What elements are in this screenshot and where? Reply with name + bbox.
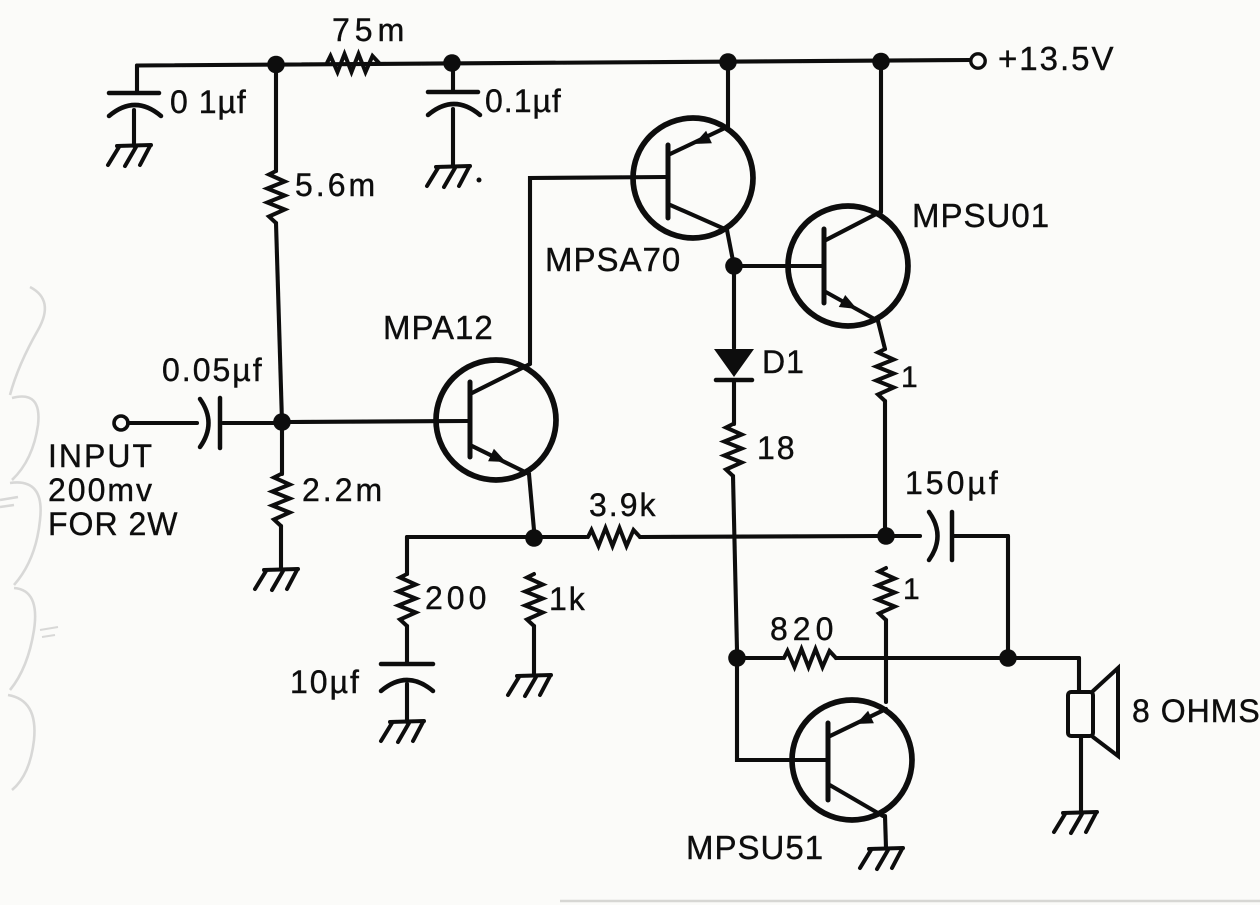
- svg-text:MPSU01: MPSU01: [912, 197, 1050, 234]
- svg-text:0.05µf: 0.05µf: [162, 352, 264, 388]
- svg-text:FOR 2W: FOR 2W: [48, 506, 178, 542]
- svg-text:10µf: 10µf: [290, 664, 361, 700]
- svg-text:0 1µf: 0 1µf: [170, 84, 247, 120]
- svg-text:8 OHMS: 8 OHMS: [1132, 693, 1260, 729]
- svg-text:+13.5V: +13.5V: [998, 40, 1116, 77]
- svg-text:MPSA70: MPSA70: [545, 241, 681, 278]
- svg-text:18: 18: [757, 430, 797, 466]
- svg-text:200: 200: [425, 580, 490, 616]
- svg-text:3.9k: 3.9k: [589, 487, 657, 523]
- svg-text:820: 820: [770, 611, 838, 647]
- svg-text:200mv: 200mv: [48, 472, 154, 508]
- svg-text:D1: D1: [762, 344, 805, 380]
- svg-text:1: 1: [903, 573, 920, 606]
- svg-text:MPSU51: MPSU51: [686, 829, 824, 866]
- svg-text:INPUT: INPUT: [48, 438, 154, 474]
- svg-text:1: 1: [901, 361, 918, 394]
- svg-text:75m: 75m: [332, 12, 409, 48]
- svg-text:5.6m: 5.6m: [295, 167, 378, 203]
- svg-text:0.1µf: 0.1µf: [485, 83, 562, 119]
- svg-text:2.2m: 2.2m: [302, 472, 385, 508]
- svg-text:MPA12: MPA12: [383, 309, 494, 346]
- svg-text:150µf: 150µf: [905, 465, 1001, 501]
- svg-text:1k: 1k: [549, 581, 587, 617]
